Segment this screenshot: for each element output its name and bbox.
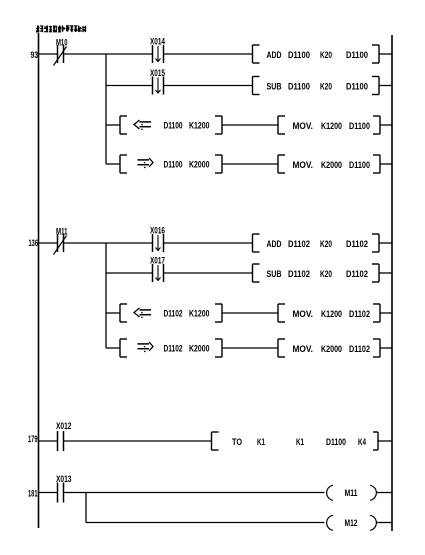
svg-text:D1102: D1102 bbox=[349, 309, 370, 319]
svg-text:SUB: SUB bbox=[267, 82, 282, 92]
svg-text:M11: M11 bbox=[56, 227, 68, 237]
wire rung1 row3 left bbox=[106, 124, 120, 126]
contact M10 (NC) bbox=[54, 38, 68, 66]
svg-text:D1100: D1100 bbox=[164, 160, 183, 170]
contact X013 (NO) bbox=[56, 474, 72, 503]
svg-text:D1100: D1100 bbox=[349, 160, 370, 170]
step number 179 bbox=[28, 434, 38, 444]
svg-text:ADD: ADD bbox=[267, 50, 282, 60]
coil M11 bbox=[327, 485, 377, 500]
svg-text:K1: K1 bbox=[257, 437, 265, 447]
svg-text:93: 93 bbox=[31, 50, 39, 60]
instruction MOV K1200 D1100 bbox=[278, 116, 380, 134]
svg-text:181: 181 bbox=[28, 489, 38, 499]
wire compare to MOV 4 bbox=[222, 347, 278, 349]
contact X012 (NO) bbox=[56, 421, 72, 451]
wire M10 to X014 bbox=[64, 53, 152, 55]
svg-text:SUB: SUB bbox=[267, 269, 282, 279]
svg-text:ADD: ADD bbox=[267, 239, 282, 249]
svg-text:X017: X017 bbox=[150, 256, 165, 266]
wire coil M12 to right rail bbox=[377, 522, 392, 524]
contact X014 (falling edge) bbox=[150, 37, 165, 64]
wire X013 to coil M11 bbox=[64, 492, 325, 494]
svg-text:MOV.: MOV. bbox=[293, 344, 314, 354]
wire TO to right rail bbox=[378, 440, 392, 442]
instruction SUB D1100 K20 D1100 bbox=[253, 77, 380, 95]
svg-text:D1100: D1100 bbox=[326, 437, 346, 447]
left power rail bbox=[38, 33, 40, 528]
compare LE D1102 K1200 bbox=[120, 304, 222, 322]
svg-text:D1102: D1102 bbox=[288, 269, 310, 279]
svg-text:D1102: D1102 bbox=[164, 309, 183, 319]
wire rung4 left bbox=[39, 492, 58, 494]
svg-text:X012: X012 bbox=[56, 421, 72, 431]
wire rung2 row3 left bbox=[106, 312, 120, 314]
svg-text:K1200: K1200 bbox=[321, 121, 342, 131]
wire rung1 row1 left bbox=[39, 53, 58, 55]
header comment text bbox=[36, 25, 86, 32]
wire compare to MOV bbox=[222, 124, 278, 126]
instruction SUB D1102 K20 D1102 bbox=[253, 264, 380, 282]
svg-text:D1100: D1100 bbox=[288, 50, 310, 60]
contact X016 (falling edge) bbox=[150, 226, 165, 253]
wire coil M11 to right rail bbox=[377, 492, 392, 494]
svg-text:D1100: D1100 bbox=[346, 82, 368, 92]
instruction TO K1 K1 D1100 K4 bbox=[212, 432, 379, 450]
wire MOV 2 to right rail bbox=[380, 163, 392, 165]
svg-text:X014: X014 bbox=[150, 37, 165, 47]
contact X017 (falling edge) bbox=[150, 256, 165, 283]
svg-text:M11: M11 bbox=[345, 488, 358, 498]
wire rung1 row2 left bbox=[106, 85, 152, 87]
branch to M12 row bbox=[86, 493, 325, 523]
wire X014 to ADD block bbox=[164, 53, 253, 55]
branch rail rung2 bbox=[105, 243, 107, 348]
wire X017 to SUB block 2 bbox=[164, 272, 253, 274]
svg-text:M12: M12 bbox=[345, 518, 358, 528]
wire MOV 4 to right rail bbox=[380, 347, 392, 349]
contact X015 (falling edge) bbox=[150, 68, 165, 95]
wire SUB to right rail bbox=[379, 85, 392, 87]
wire MOV 3 to right rail bbox=[380, 312, 392, 314]
wire rung2 row2 left bbox=[106, 272, 152, 274]
right power rail bbox=[391, 35, 393, 531]
compare LE D1100 K1200 bbox=[120, 116, 222, 134]
svg-text:D1100: D1100 bbox=[349, 121, 370, 131]
svg-text:K1200: K1200 bbox=[189, 121, 210, 131]
wire compare to MOV 3 bbox=[222, 312, 278, 314]
svg-text:K2000: K2000 bbox=[189, 344, 210, 354]
svg-text:X016: X016 bbox=[150, 226, 165, 236]
svg-text:X015: X015 bbox=[150, 68, 165, 78]
svg-text:K2000: K2000 bbox=[189, 160, 210, 170]
svg-text:179: 179 bbox=[28, 434, 38, 444]
svg-text:K20: K20 bbox=[320, 50, 332, 60]
svg-text:D1102: D1102 bbox=[346, 239, 368, 249]
svg-text:MOV.: MOV. bbox=[293, 121, 314, 131]
compare GE D1100 K2000 bbox=[120, 155, 222, 173]
wire rung3 left bbox=[39, 440, 58, 442]
wire ADD 2 to right rail bbox=[379, 242, 392, 244]
svg-text:K1200: K1200 bbox=[189, 309, 210, 319]
wire X016 to ADD block 2 bbox=[164, 242, 253, 244]
wire ADD to right rail bbox=[379, 53, 392, 55]
branch rail rung1 bbox=[105, 54, 107, 164]
step number 93 bbox=[31, 50, 39, 60]
wire compare to MOV 2 bbox=[222, 163, 278, 165]
svg-text:D1100: D1100 bbox=[164, 121, 183, 131]
svg-text:K1: K1 bbox=[296, 437, 304, 447]
svg-text:K4: K4 bbox=[358, 437, 366, 447]
step number 136 bbox=[29, 238, 39, 248]
svg-text:136: 136 bbox=[29, 238, 39, 248]
instruction ADD D1102 K20 D1102 bbox=[253, 234, 380, 252]
compare GE D1102 K2000 bbox=[120, 339, 222, 357]
coil M12 bbox=[327, 515, 377, 530]
svg-text:D1102: D1102 bbox=[288, 239, 310, 249]
svg-text:MOV.: MOV. bbox=[293, 309, 314, 319]
svg-text:D1102: D1102 bbox=[164, 344, 183, 354]
wire MOV to right rail bbox=[380, 124, 392, 126]
wire SUB 2 to right rail bbox=[379, 272, 392, 274]
svg-text:K1200: K1200 bbox=[321, 309, 342, 319]
wire rung1 row4 left bbox=[106, 163, 120, 165]
wire rung2 row4 left bbox=[106, 347, 120, 349]
svg-text:K20: K20 bbox=[320, 269, 332, 279]
svg-text:M10: M10 bbox=[56, 38, 68, 48]
instruction MOV K2000 D1100 bbox=[278, 155, 380, 173]
svg-text:D1102: D1102 bbox=[349, 344, 370, 354]
svg-text:TO: TO bbox=[232, 437, 242, 447]
svg-text:D1100: D1100 bbox=[346, 50, 368, 60]
instruction MOV K2000 D1102 bbox=[278, 339, 380, 357]
svg-text:X013: X013 bbox=[56, 474, 72, 484]
svg-text:K20: K20 bbox=[320, 82, 332, 92]
wire rung2 row1 left bbox=[39, 242, 58, 244]
step number 181 bbox=[28, 489, 38, 499]
instruction MOV K1200 D1102 bbox=[278, 304, 380, 322]
wire M11 to X016 bbox=[64, 242, 152, 244]
svg-text:K2000: K2000 bbox=[321, 344, 342, 354]
instruction ADD D1100 K20 D1100 bbox=[253, 45, 380, 63]
wire X012 to TO block bbox=[64, 440, 212, 442]
svg-text:K2000: K2000 bbox=[321, 160, 342, 170]
svg-text:K20: K20 bbox=[320, 239, 332, 249]
contact M11 (NC) bbox=[54, 227, 68, 255]
svg-text:D1100: D1100 bbox=[288, 82, 310, 92]
wire X015 to SUB block bbox=[164, 85, 253, 87]
svg-text:MOV.: MOV. bbox=[293, 160, 314, 170]
svg-text:D1102: D1102 bbox=[346, 269, 368, 279]
